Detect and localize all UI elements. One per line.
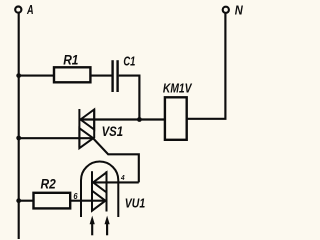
VU1 left bar [91,171,93,211]
resistor R2 [34,193,71,209]
VS1 right bar [93,109,95,138]
capacitor C1 [113,60,118,92]
junction node at C1/VS1/KM1V [137,117,142,122]
svg-text:A: A [26,3,33,17]
VU1 upper triangle [93,172,106,192]
VU1 lower triangle [92,191,105,211]
wire left rail from A down to bottom edge [18,13,20,239]
svg-text:VS1: VS1 [102,124,124,139]
svg-text:KM1V: KM1V [163,81,193,96]
svg-text:6: 6 [73,191,77,201]
svg-text:R2: R2 [41,176,57,191]
VS1 upper triangle [81,110,95,130]
wire rail to R1 [19,75,54,77]
svg-text:R1: R1 [63,52,78,67]
wire R1 to C1 [90,75,111,77]
junction node at rail/VS1 [16,136,21,141]
svg-text:4: 4 [120,173,125,182]
light arrow 1 [90,216,95,236]
VU1 right bar [106,171,108,211]
wire VU1 pin 4 [92,181,139,183]
svg-text:VU1: VU1 [125,195,145,210]
wire C1 right to drop [119,76,140,120]
terminal A [15,7,21,13]
VS1 left bar [78,109,80,148]
svg-text:C1: C1 [123,53,135,68]
wire rail to R2 [19,200,34,202]
junction node at rail/R1 [16,73,21,78]
wire VS1 gate down to VU1 pin 4 [94,139,139,183]
light arrow 2 [105,216,110,236]
VS1 lower triangle [79,128,93,148]
VU1 envelope arch [81,162,118,217]
svg-text:N: N [235,3,244,18]
wire R2 to VU1 pin 6 [70,200,105,202]
relay coil KM1V [165,97,187,140]
triac VS1 [79,109,94,148]
wire N rail down to corner [187,13,226,119]
wire VS1 top to KM1V coil [80,118,165,120]
resistor R1 [54,67,90,82]
wire rail to VS1 left terminal [19,137,94,139]
opto-triac VU1 [81,162,118,217]
junction node at rail/R2 [16,198,21,203]
terminal N [223,7,229,13]
